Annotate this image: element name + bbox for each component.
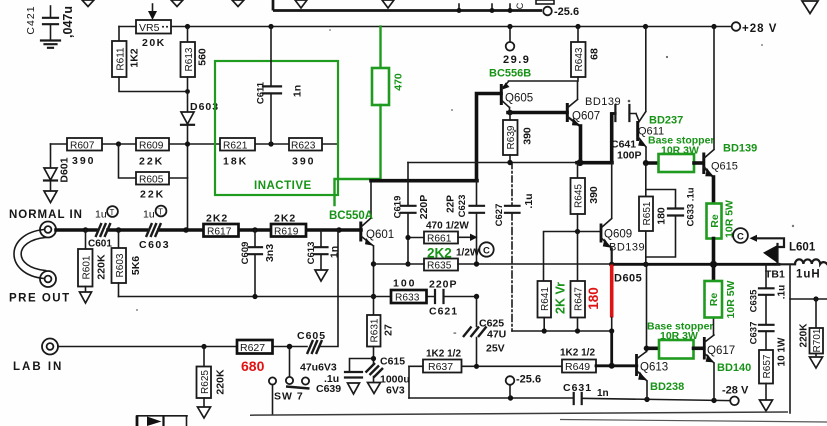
svg-text:R639: R639: [506, 125, 517, 149]
svg-text:.1u: .1u: [523, 193, 535, 208]
svg-text:2K2: 2K2: [206, 213, 228, 225]
svg-text:T: T: [158, 208, 163, 217]
svg-text:R661: R661: [427, 234, 452, 245]
svg-text:BD140: BD140: [717, 362, 751, 374]
svg-text:22P: 22P: [446, 195, 457, 213]
svg-text:R647: R647: [574, 287, 585, 311]
svg-text:R625: R625: [200, 370, 211, 394]
svg-text:R617: R617: [207, 227, 232, 238]
svg-text:-28 V: -28 V: [722, 385, 749, 397]
svg-text:R651: R651: [642, 201, 653, 225]
svg-text:BD139: BD139: [609, 242, 645, 254]
svg-text:220K: 220K: [96, 254, 108, 280]
svg-text:10 1W: 10 1W: [777, 337, 788, 366]
svg-text:R603: R603: [115, 253, 126, 277]
svg-text:R611: R611: [116, 47, 127, 71]
svg-text:5K6: 5K6: [130, 256, 142, 275]
svg-text:18K: 18K: [223, 156, 248, 168]
svg-text:C623: C623: [457, 195, 468, 218]
svg-text:R641: R641: [540, 287, 551, 311]
svg-text:L601: L601: [789, 242, 816, 254]
svg-text:C601: C601: [88, 239, 112, 250]
svg-text:C639: C639: [316, 383, 341, 395]
svg-text:C627: C627: [494, 204, 505, 227]
svg-text:C609: C609: [240, 242, 251, 265]
svg-text:1K2 1/2: 1K2 1/2: [426, 349, 461, 360]
svg-text:10R 5W: 10R 5W: [725, 280, 737, 318]
svg-text:27: 27: [383, 324, 395, 336]
svg-text:R637: R637: [428, 361, 453, 373]
svg-text:Q601: Q601: [366, 229, 394, 241]
svg-text:C421: C421: [25, 5, 37, 34]
svg-text:C635: C635: [749, 289, 760, 312]
svg-text:47U: 47U: [487, 329, 506, 341]
svg-text:680: 680: [241, 358, 265, 374]
svg-text:390: 390: [588, 186, 600, 204]
svg-text:C605: C605: [297, 330, 326, 342]
svg-text:.1u: .1u: [777, 285, 788, 299]
svg-text:R657: R657: [762, 354, 773, 378]
svg-text:47u6V3: 47u6V3: [300, 362, 337, 374]
svg-text:100: 100: [393, 278, 417, 290]
svg-text:C619: C619: [393, 196, 404, 219]
svg-text:68: 68: [589, 48, 601, 60]
svg-text:BD238: BD238: [650, 381, 684, 393]
svg-text:D605: D605: [614, 273, 642, 285]
svg-text:1K2: 1K2: [129, 48, 141, 67]
svg-text:C621: C621: [429, 306, 458, 318]
svg-text:R601: R601: [82, 255, 93, 279]
svg-text:R613: R613: [184, 47, 195, 71]
svg-text:BC556B: BC556B: [489, 68, 531, 80]
svg-text:R643: R643: [574, 47, 585, 71]
svg-text:1/2W: 1/2W: [456, 248, 480, 259]
svg-text:C: C: [515, 2, 525, 9]
svg-text:R633: R633: [395, 293, 420, 304]
svg-text:Q617: Q617: [707, 345, 735, 357]
svg-text:SW 7: SW 7: [274, 391, 304, 403]
svg-text:1n: 1n: [292, 85, 304, 97]
svg-text:390: 390: [72, 155, 96, 167]
svg-text:470 1/2W: 470 1/2W: [426, 221, 469, 232]
svg-text:C: C: [737, 232, 744, 243]
svg-text:6V3: 6V3: [386, 385, 405, 397]
svg-text:25V: 25V: [486, 343, 505, 355]
svg-text:D601: D601: [59, 157, 71, 182]
svg-text:-25.6: -25.6: [516, 374, 541, 386]
svg-text:10R 3W: 10R 3W: [660, 330, 698, 342]
svg-text:220K: 220K: [799, 323, 810, 348]
svg-text:TB1: TB1: [765, 269, 785, 281]
svg-text:LAB IN: LAB IN: [13, 361, 63, 373]
svg-text:R645: R645: [574, 184, 585, 208]
svg-text:BC550A: BC550A: [329, 210, 373, 222]
svg-text:R609: R609: [139, 141, 164, 152]
svg-text:29.9: 29.9: [503, 54, 530, 66]
svg-text:-: -: [453, 327, 457, 339]
svg-text:C633 .1u: C633 .1u: [686, 187, 697, 226]
svg-text:22K: 22K: [140, 189, 165, 201]
svg-text:220P: 220P: [429, 279, 458, 291]
svg-text:R635: R635: [427, 261, 452, 272]
svg-text:1u: 1u: [143, 209, 155, 221]
svg-text:1uH: 1uH: [796, 269, 821, 281]
svg-text:560: 560: [197, 48, 209, 66]
svg-text:1u: 1u: [95, 209, 107, 221]
svg-text:470: 470: [393, 73, 405, 91]
svg-text:22K: 22K: [139, 156, 164, 168]
svg-text:R627: R627: [240, 342, 265, 354]
svg-text:-25.6: -25.6: [554, 6, 579, 18]
svg-text:390: 390: [522, 127, 534, 145]
svg-text:Q613: Q613: [640, 362, 668, 374]
svg-text:INACTIVE: INACTIVE: [254, 180, 312, 192]
svg-text:PRE OUT: PRE OUT: [9, 293, 71, 305]
svg-text:1K2 1/2: 1K2 1/2: [560, 348, 595, 359]
svg-text:180: 180: [656, 207, 668, 225]
svg-text:Re: Re: [709, 214, 721, 228]
svg-text:R631: R631: [370, 318, 381, 342]
svg-text:220K: 220K: [215, 369, 227, 395]
svg-text:Q615: Q615: [711, 161, 738, 173]
svg-text:C611: C611: [256, 81, 267, 104]
svg-text:VR5: VR5: [139, 22, 160, 34]
svg-text:C603: C603: [139, 239, 170, 251]
svg-text:C: C: [483, 246, 490, 257]
svg-text:R607: R607: [70, 141, 95, 152]
svg-text:R649: R649: [565, 361, 590, 373]
svg-text:C631: C631: [563, 382, 592, 394]
svg-text:390: 390: [292, 156, 316, 168]
svg-text:180: 180: [586, 287, 601, 310]
svg-text:C613: C613: [306, 242, 317, 265]
svg-text:100P: 100P: [617, 150, 642, 162]
svg-text:220P: 220P: [418, 195, 430, 220]
svg-text:T: T: [110, 208, 115, 217]
svg-text:R701: R701: [812, 328, 823, 352]
svg-text:2K2: 2K2: [274, 213, 296, 225]
svg-text:Re: Re: [708, 293, 720, 307]
svg-text:R605: R605: [139, 175, 164, 186]
svg-text:NORMAL IN: NORMAL IN: [9, 209, 83, 221]
svg-text:2K Vr: 2K Vr: [554, 282, 568, 314]
svg-text:Q605: Q605: [505, 93, 533, 105]
svg-text:C615: C615: [380, 356, 405, 368]
svg-text:BD237: BD237: [649, 115, 683, 127]
svg-text:C637: C637: [749, 322, 760, 345]
svg-text:+28 V: +28 V: [742, 23, 777, 35]
svg-text:R619: R619: [274, 227, 299, 238]
svg-text:1n: 1n: [597, 388, 609, 399]
svg-text:R623: R623: [291, 141, 316, 152]
svg-text:BD139: BD139: [723, 143, 757, 155]
svg-text:R621: R621: [223, 141, 248, 152]
svg-text:Q607: Q607: [572, 111, 600, 123]
svg-text:3n3: 3n3: [264, 244, 276, 262]
svg-text:20K: 20K: [142, 37, 166, 49]
svg-text:,047u: ,047u: [61, 6, 75, 38]
svg-text:Q609: Q609: [604, 229, 632, 241]
